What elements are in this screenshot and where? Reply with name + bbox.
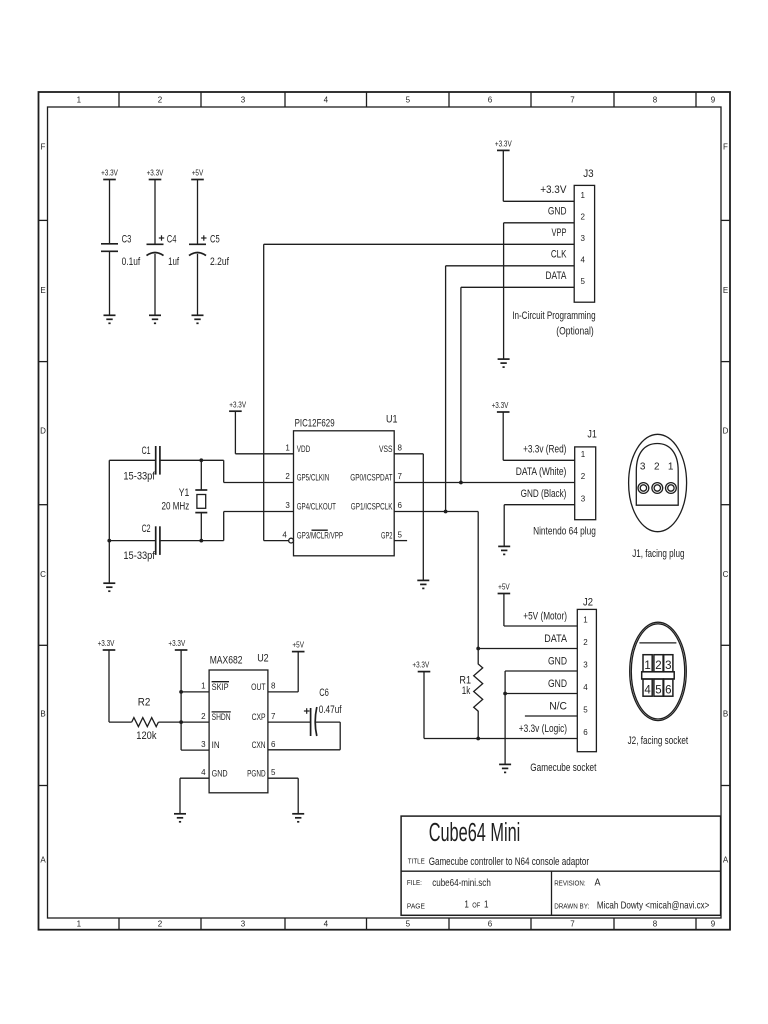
svg-text:N/C: N/C (549, 701, 567, 713)
svg-text:F: F (723, 143, 728, 152)
wire C4 top (154, 180, 156, 245)
svg-text:0.47uf: 0.47uf (319, 704, 343, 716)
svg-text:3: 3 (581, 494, 586, 503)
capacitor C4 (147, 235, 165, 255)
svg-text:4: 4 (201, 768, 206, 777)
svg-text:VPP: VPP (552, 227, 567, 239)
ground (C3) (104, 315, 116, 323)
power +3.3V (U1 VDD) (229, 400, 247, 411)
power +3.3V (C4) (147, 169, 164, 180)
svg-text:8: 8 (653, 96, 658, 105)
svg-text:DATA: DATA (546, 270, 567, 282)
wire J2 pin2 DATA (478, 648, 577, 650)
svg-text:FILE:: FILE: (407, 880, 422, 887)
svg-text:B: B (40, 710, 45, 719)
wire J1 pin3 GND Black (504, 505, 575, 547)
resistor R1 (474, 649, 483, 739)
svg-text:5: 5 (398, 530, 403, 539)
wire left rail C1/C2 (108, 460, 110, 583)
svg-text:J1: J1 (587, 429, 597, 441)
svg-text:C: C (40, 570, 46, 579)
svg-text:MAX682: MAX682 (210, 655, 243, 667)
svg-text:1: 1 (77, 920, 82, 929)
svg-text:2: 2 (581, 472, 586, 481)
svg-text:E: E (723, 286, 728, 295)
svg-text:J1, facing plug: J1, facing plug (632, 548, 684, 560)
R1 value labels (459, 675, 471, 698)
svg-text:CXP: CXP (252, 712, 266, 722)
J1 description (533, 526, 596, 538)
wire U2 CXP (268, 721, 311, 723)
svg-text:Micah Dowty <micah@navi.cx>: Micah Dowty <micah@navi.cx> (597, 900, 710, 912)
svg-text:15-33pf: 15-33pf (123, 471, 155, 483)
svg-text:5: 5 (581, 277, 586, 286)
svg-text:U2: U2 (257, 653, 269, 665)
svg-text:GP1/ICSPCLK: GP1/ICSPCLK (351, 502, 393, 512)
svg-text:3: 3 (581, 234, 586, 243)
junction R1 bottom (476, 737, 480, 741)
svg-text:C5: C5 (210, 234, 220, 246)
svg-text:D: D (40, 426, 46, 435)
power +3.3V (U2 IN) (168, 639, 187, 650)
wire C3 top (109, 180, 111, 244)
svg-text:2: 2 (158, 920, 163, 929)
wire VSS to ground (394, 454, 423, 581)
svg-text:C3: C3 (122, 234, 132, 246)
svg-text:4: 4 (583, 683, 588, 692)
svg-text:+3.3V: +3.3V (98, 639, 115, 648)
svg-text:PAGE: PAGE (407, 903, 425, 910)
wire J2 pin1 +5V Motor (504, 594, 577, 627)
svg-text:C: C (723, 570, 729, 579)
wire U2 PGND (268, 778, 298, 814)
svg-text:1: 1 (668, 461, 674, 472)
capacitor C3 (101, 244, 118, 252)
title block text (407, 819, 710, 912)
crystal Y1 (195, 460, 207, 540)
svg-text:0.1uf: 0.1uf (122, 256, 141, 268)
J2 pin numbers (583, 616, 588, 738)
svg-text:1: 1 (581, 450, 586, 459)
svg-text:+5V (Motor): +5V (Motor) (523, 611, 567, 623)
ground (C1/C2) (103, 583, 115, 591)
wire GP2 stub (394, 540, 407, 542)
wire C6 to CXN (268, 722, 340, 750)
title block (401, 816, 720, 915)
power +3.3V (J3) (495, 140, 512, 151)
power +3.3V (C3) (101, 169, 118, 180)
power +5V (J2) (498, 582, 511, 593)
svg-text:A: A (595, 876, 601, 888)
svg-text:CXN: CXN (252, 740, 266, 750)
svg-text:5: 5 (655, 685, 661, 697)
svg-text:C4: C4 (167, 234, 177, 246)
svg-text:C6: C6 (319, 687, 329, 699)
capacitor C1 (156, 446, 160, 475)
svg-text:5: 5 (406, 96, 411, 105)
resistor R2 (132, 718, 159, 727)
svg-text:CLK: CLK (551, 248, 567, 260)
svg-text:2.2uf: 2.2uf (210, 256, 230, 268)
svg-text:15-33pf: 15-33pf (123, 550, 155, 562)
J3 description (512, 310, 595, 338)
svg-text:REVISION:: REVISION: (554, 880, 585, 887)
svg-text:U1: U1 (386, 414, 398, 426)
wire VDD (235, 411, 293, 454)
svg-text:+3.3V: +3.3V (101, 169, 118, 178)
wire J2 pin4 GND (505, 693, 577, 695)
ground (U2 PGND) (292, 814, 304, 822)
svg-text:SHDN: SHDN (212, 712, 231, 722)
svg-text:E: E (40, 286, 45, 295)
svg-text:A: A (723, 856, 729, 865)
svg-text:+3.3v (Red): +3.3v (Red) (523, 444, 566, 456)
svg-text:2: 2 (201, 712, 206, 721)
svg-text:F: F (41, 143, 46, 152)
svg-text:GND (Black): GND (Black) (521, 488, 567, 500)
svg-text:3: 3 (285, 501, 290, 510)
J2 socket pin numbers (644, 660, 671, 697)
wire J3 pin1 +3.3V (503, 150, 574, 201)
J2 facing socket diagram (630, 622, 687, 720)
svg-text:2: 2 (285, 472, 290, 481)
svg-text:In-Circuit Programming: In-Circuit Programming (512, 310, 595, 322)
J3 pin numbers (581, 191, 586, 286)
svg-text:8: 8 (271, 682, 276, 691)
wire U2 GND pin4 (180, 778, 209, 814)
svg-text:6: 6 (271, 740, 276, 749)
svg-text:5: 5 (406, 920, 411, 929)
svg-text:GP3/MCLR/VPP: GP3/MCLR/VPP (297, 531, 343, 541)
junction J2 GND (503, 692, 507, 696)
U1 pin names (297, 444, 393, 541)
J1 plug pin numbers (640, 461, 674, 472)
svg-text:120k: 120k (136, 730, 157, 742)
ground (C5) (192, 315, 204, 323)
wire R2 right to SHDN (158, 721, 209, 723)
svg-text:1uf: 1uf (168, 256, 180, 268)
svg-text:OF: OF (472, 902, 480, 909)
wire U2 OUT (268, 652, 298, 692)
svg-text:1: 1 (644, 660, 650, 672)
svg-text:C2: C2 (142, 523, 151, 535)
svg-text:3: 3 (241, 96, 246, 105)
svg-text:3: 3 (241, 920, 246, 929)
capacitor C5 (189, 235, 207, 255)
svg-text:+3.3V: +3.3V (492, 401, 509, 410)
svg-text:B: B (723, 710, 728, 719)
wire GP1/ICSPCLK to J2 DATA (394, 512, 478, 649)
ground (U2 GND) (174, 814, 186, 822)
svg-text:GND: GND (548, 656, 567, 668)
wire J2 pin3 GND (505, 671, 577, 764)
C2 value labels (123, 523, 155, 562)
capacitor C6 (304, 707, 317, 736)
junction SKIP (179, 690, 183, 694)
svg-text:8: 8 (653, 920, 658, 929)
op-amp U1 (PIC12F629) (294, 414, 398, 556)
svg-text:4: 4 (324, 96, 329, 105)
transistor U2 (MAX682) (209, 653, 269, 793)
capacitor C2 (156, 526, 160, 555)
wire U2 3.3V rail (181, 650, 209, 750)
J1 plug caption (632, 548, 684, 560)
svg-text:3: 3 (665, 660, 671, 672)
svg-text:4: 4 (581, 256, 586, 265)
svg-text:1k: 1k (462, 685, 471, 697)
svg-text:3: 3 (640, 461, 646, 472)
svg-text:VDD: VDD (297, 444, 311, 454)
svg-text:7: 7 (271, 712, 276, 721)
svg-text:+3.3V: +3.3V (412, 661, 429, 670)
wire OSC1 (C1 to GP5/CLKIN) (109, 460, 293, 482)
junction SHDN (179, 720, 183, 724)
svg-text:9: 9 (711, 96, 716, 105)
svg-text:J2, facing socket: J2, facing socket (628, 735, 689, 747)
wire VPP net (264, 244, 575, 540)
svg-text:+5V: +5V (292, 641, 304, 650)
wire CLK net (446, 266, 575, 512)
svg-text:1: 1 (583, 616, 588, 625)
svg-text:2: 2 (581, 213, 586, 222)
svg-text:cube64-mini.sch: cube64-mini.sch (432, 877, 491, 889)
svg-text:+3.3v (Logic): +3.3v (Logic) (519, 723, 567, 735)
svg-text:5: 5 (271, 768, 276, 777)
ground (U1 VSS) (417, 580, 429, 588)
connector J1 (575, 429, 597, 520)
svg-text:4: 4 (644, 685, 651, 697)
C5 value labels (210, 234, 230, 268)
svg-text:GND: GND (548, 678, 567, 690)
svg-text:GP4/CLKOUT: GP4/CLKOUT (297, 502, 337, 512)
junction Y1 top (199, 458, 203, 462)
J2 socket caption (628, 735, 689, 747)
power +5V (C5) (191, 169, 204, 180)
wire C5 bottom (197, 254, 199, 315)
wire C3 bottom (109, 251, 111, 315)
svg-text:7: 7 (398, 472, 403, 481)
J1 net labels (516, 444, 567, 500)
svg-text:Cube64 Mini: Cube64 Mini (429, 819, 521, 847)
Y1 value labels (162, 487, 190, 513)
svg-text:1: 1 (201, 682, 206, 691)
svg-text:J2: J2 (583, 597, 593, 609)
svg-text:+5V: +5V (498, 582, 510, 591)
wire C4 bottom (154, 254, 156, 315)
ground (J2) (499, 764, 511, 772)
svg-text:A: A (40, 856, 46, 865)
svg-text:GND: GND (212, 768, 228, 778)
U1 pin numbers (282, 444, 402, 540)
svg-text:1: 1 (464, 898, 469, 910)
svg-text:+3.3V: +3.3V (540, 184, 567, 196)
svg-text:20 MHz: 20 MHz (162, 501, 190, 513)
wire OSC2 (C2 to GP4/CLKOUT) (109, 512, 293, 541)
svg-text:GP0/ICSPDAT: GP0/ICSPDAT (350, 473, 393, 483)
svg-text:2: 2 (654, 461, 660, 472)
svg-text:+5V: +5V (192, 169, 204, 178)
svg-text:6: 6 (488, 96, 493, 105)
wire J2 pin6 +3.3v Logic (424, 672, 577, 739)
svg-text:6: 6 (488, 920, 493, 929)
svg-text:PIC12F629: PIC12F629 (295, 418, 335, 430)
C3 value labels (122, 234, 141, 268)
svg-text:PGND: PGND (247, 768, 266, 778)
wire J3 pin2 GND (504, 223, 575, 359)
wire DATA net (461, 287, 574, 482)
svg-text:SKIP: SKIP (212, 682, 229, 692)
U1 pin4 bubble (289, 538, 294, 543)
svg-text:3: 3 (583, 661, 588, 670)
junction left rail / C2 (107, 539, 111, 543)
svg-text:6: 6 (583, 728, 588, 737)
svg-text:2: 2 (583, 638, 588, 647)
ground (J1) (498, 546, 510, 554)
svg-text:GP2: GP2 (381, 531, 393, 541)
power +5V (U2 OUT) (292, 641, 305, 652)
svg-text:2: 2 (655, 660, 661, 672)
svg-text:GND: GND (548, 205, 567, 217)
J1 facing plug diagram (629, 434, 687, 531)
wire C5 top (197, 180, 199, 245)
wire J1 pin1 +3.3v Red (503, 412, 575, 460)
svg-text:Gamecube socket: Gamecube socket (530, 762, 596, 774)
C4 value labels (167, 234, 180, 268)
J2 net labels (519, 611, 568, 736)
svg-text:1: 1 (484, 898, 489, 910)
wire R2 left (109, 650, 132, 722)
svg-text:GP5/CLKIN: GP5/CLKIN (297, 473, 330, 483)
svg-text:R2: R2 (138, 697, 151, 709)
svg-text:+3.3V: +3.3V (495, 140, 512, 149)
C6 value labels (319, 687, 343, 716)
J3 net labels (540, 184, 567, 282)
svg-text:Nintendo 64 plug: Nintendo 64 plug (533, 526, 596, 538)
power +3.3V (R2) (98, 639, 116, 650)
svg-text:1: 1 (285, 444, 290, 453)
svg-text:1: 1 (77, 96, 82, 105)
connector J3 (574, 168, 594, 302)
svg-text:+3.3V: +3.3V (168, 639, 185, 648)
power +3.3V (J1) (492, 401, 510, 412)
junction R1 top (476, 647, 480, 651)
R2 value labels (136, 697, 157, 742)
svg-text:DATA (White): DATA (White) (516, 466, 567, 478)
svg-text:DRAWN BY:: DRAWN BY: (554, 903, 589, 910)
wire J2 pin5 N/C stub (525, 715, 577, 717)
J1 pin numbers (581, 450, 586, 503)
C1 value labels (123, 445, 155, 483)
junction Y1 bottom (199, 539, 203, 543)
ground (J3) (498, 359, 510, 367)
svg-text:(Optional): (Optional) (556, 326, 593, 338)
junction DATA/GP0 (459, 481, 463, 485)
svg-text:+3.3V: +3.3V (147, 169, 164, 178)
power +3.3V (J2 logic) (412, 661, 430, 672)
svg-text:VSS: VSS (379, 444, 393, 454)
svg-text:TITLE: TITLE (408, 858, 425, 865)
wire GP0/ICSPDAT to J1 DATA (394, 482, 575, 484)
svg-text:D: D (723, 426, 729, 435)
svg-text:1: 1 (581, 191, 586, 200)
svg-text:9: 9 (711, 920, 716, 929)
svg-text:7: 7 (570, 96, 575, 105)
svg-text:4: 4 (282, 530, 287, 539)
svg-text:OUT: OUT (251, 682, 266, 692)
svg-text:6: 6 (398, 501, 403, 510)
svg-text:C1: C1 (142, 445, 151, 457)
svg-text:J3: J3 (583, 168, 593, 180)
svg-text:Gamecube controller to N64 con: Gamecube controller to N64 console adapt… (429, 856, 590, 868)
svg-text:6: 6 (665, 685, 671, 697)
svg-text:IN: IN (212, 740, 220, 750)
svg-text:8: 8 (398, 444, 403, 453)
svg-text:3: 3 (201, 740, 206, 749)
svg-text:Y1: Y1 (179, 487, 190, 499)
J2 description (530, 762, 596, 774)
junction CLK/GP1 (444, 510, 448, 514)
svg-text:2: 2 (158, 96, 163, 105)
svg-text:4: 4 (324, 920, 329, 929)
U2 pin numbers (201, 682, 276, 777)
svg-text:DATA: DATA (544, 633, 567, 645)
U2 pin names (212, 682, 266, 779)
svg-text:+3.3V: +3.3V (229, 400, 246, 409)
ground (C4) (149, 315, 161, 323)
svg-text:7: 7 (570, 920, 575, 929)
connector J2 (577, 597, 596, 752)
svg-text:5: 5 (583, 706, 588, 715)
